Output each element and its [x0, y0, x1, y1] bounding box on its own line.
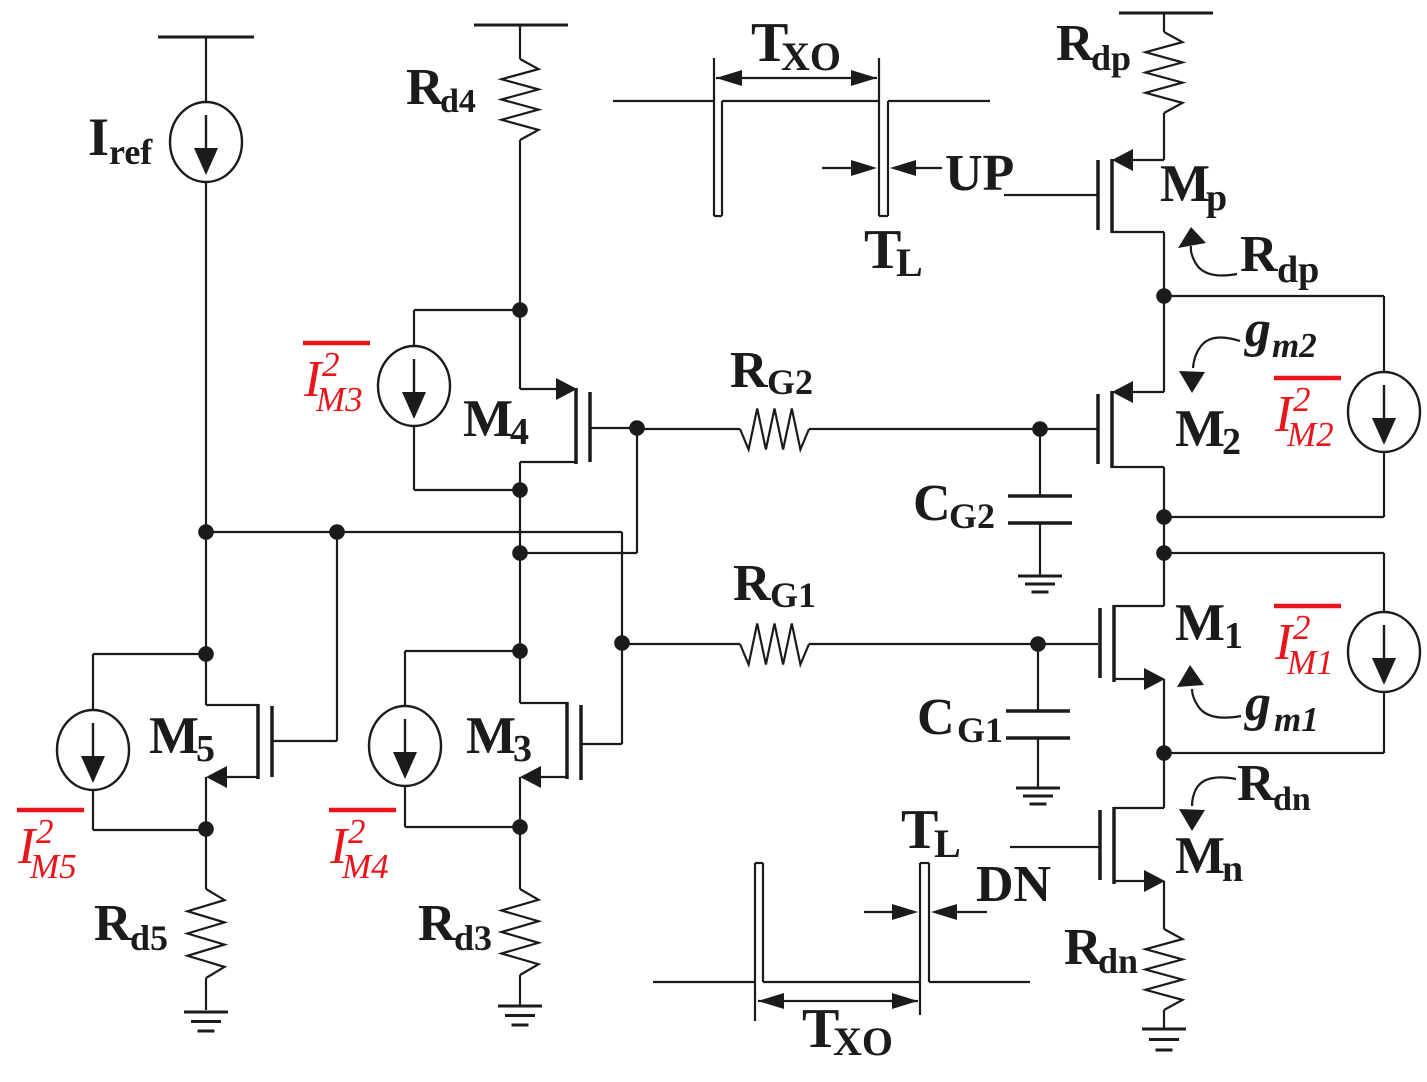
label UP [945, 145, 1014, 202]
wire Iref drain column [205, 182, 207, 705]
power rail (VDD) for Iref [158, 37, 254, 103]
resistor Rdp [1146, 32, 1183, 113]
wire node N to IM2 source top [1164, 296, 1384, 372]
dimension TXO (bottom) [758, 993, 918, 1009]
transistor M4 (PMOS-style, gate on right, arrow on drain lead) [520, 310, 637, 490]
wire RG2 left segment [637, 428, 740, 430]
svg-text:G1: G1 [770, 575, 816, 615]
wire M4 source down [519, 490, 521, 703]
svg-text:g: g [1244, 675, 1271, 732]
svg-text:dp: dp [1091, 38, 1131, 78]
svg-text:2: 2 [1293, 608, 1311, 647]
label M2 [1175, 400, 1241, 463]
svg-text:L: L [896, 240, 923, 285]
ground (CG1) [1016, 788, 1060, 804]
node H junction dot (M4 gate / RG2) [629, 420, 645, 436]
current source Iref [170, 102, 242, 182]
svg-text:XO: XO [833, 1019, 893, 1064]
svg-text:m1: m1 [1274, 700, 1319, 739]
svg-text:R: R [94, 895, 133, 952]
label RG1 [733, 555, 816, 615]
wire M3 gate branch vertical [621, 532, 623, 744]
transistor M1 (gate on left) [1100, 605, 1165, 753]
label M4 [463, 390, 529, 453]
svg-text:5: 5 [196, 728, 215, 770]
wire RG1 right segment [809, 643, 1098, 645]
svg-text:C: C [917, 689, 955, 746]
wire M2 drain up [1163, 296, 1165, 392]
wire RG1 left segment [622, 643, 740, 645]
wire DN gate lead [1010, 846, 1100, 848]
svg-text:2: 2 [36, 812, 54, 851]
label Iref [88, 107, 153, 172]
wire M5 gate branch vertical [336, 532, 338, 741]
node C junction dot (M5 source) [198, 821, 214, 837]
label Rd5 [94, 895, 168, 958]
wire UP gate lead [1004, 194, 1098, 196]
UP waveform pulse 1 [714, 58, 722, 216]
node N junction dot (Mp drain / M2 drain) [1156, 288, 1172, 304]
svg-text:C: C [913, 475, 951, 532]
transistor Mp (PMOS, gate on left) [1098, 149, 1164, 233]
svg-text:g: g [1244, 301, 1271, 358]
transistor M2 (gate on left) [1098, 381, 1164, 468]
power rail (VDD) for Rdp [1119, 13, 1213, 32]
ground (Rd3) [498, 1006, 542, 1025]
node F junction dot (M4 source) [512, 482, 528, 498]
label IM5 noise (red) [17, 810, 84, 886]
wire Rdp to Mp drain [1163, 113, 1165, 160]
svg-text:M1: M1 [1286, 643, 1334, 682]
label IM2 noise (red) [1274, 378, 1341, 454]
wire IM2 bottom to node O [1164, 452, 1384, 517]
node Q junction dot (M1 source / Mn drain) [1156, 745, 1172, 761]
wire Rdn to ground [1163, 1010, 1165, 1028]
label Rdp (pointer) [1240, 226, 1319, 291]
transistor M3 (diode-connected NMOS, gate on right) [520, 702, 622, 827]
svg-text:R: R [1056, 15, 1095, 72]
svg-text:p: p [1206, 177, 1227, 219]
resistor Rd4 [502, 59, 539, 140]
pointer arrow Rdn [1179, 777, 1236, 831]
svg-text:M: M [149, 707, 199, 765]
label IM1 noise (red) [1274, 606, 1341, 682]
svg-text:d3: d3 [454, 918, 492, 958]
svg-text:n: n [1222, 848, 1243, 890]
node I junction dot (M3 drain) [512, 643, 528, 659]
svg-text:R: R [1237, 755, 1276, 812]
label Rdp (resistor) [1056, 15, 1131, 78]
wire RG2 right segment [809, 428, 1098, 430]
capacitor CG1 [1006, 644, 1070, 787]
svg-text:2: 2 [1293, 380, 1311, 419]
svg-text:R: R [418, 895, 457, 952]
svg-text:dn: dn [1273, 781, 1311, 818]
wire gate rail horizontal (Iref mirror gates) [206, 531, 622, 533]
label gm1 [1244, 675, 1319, 739]
dimension DN pulse width arrows [864, 904, 987, 920]
label TL (top) [864, 219, 923, 285]
svg-text:M: M [1160, 155, 1210, 213]
label Rdn (pointer) [1237, 755, 1311, 818]
svg-text:dp: dp [1277, 249, 1319, 291]
ground (CG2) [1018, 576, 1062, 592]
node K junction dot (RG1 tap) [614, 635, 630, 651]
node M junction dot (CG1 tap) [1030, 636, 1046, 652]
resistor Rdn [1146, 929, 1183, 1010]
svg-text:M: M [1175, 594, 1225, 652]
pointer arrow Rdp [1178, 227, 1237, 276]
svg-text:R: R [730, 342, 769, 399]
resistor Rd5 [188, 889, 225, 978]
wire M5 source to Rd5 [205, 829, 207, 889]
node A junction dot (Iref/gate rail) [198, 524, 214, 540]
label TXO (bottom) [802, 998, 893, 1064]
wire IM1 bottom to node Q [1164, 692, 1384, 753]
svg-text:M3: M3 [315, 380, 363, 419]
label DN [976, 856, 1051, 913]
svg-text:M: M [466, 707, 516, 765]
svg-text:2: 2 [1222, 421, 1241, 463]
node B junction dot (M5 drain) [198, 646, 214, 662]
pointer arrow gm1 [1177, 665, 1241, 718]
pointer arrow gm2 [1179, 337, 1240, 393]
noise source IM5 loop wires [93, 654, 206, 830]
label Mp [1160, 155, 1227, 219]
svg-text:I: I [88, 107, 109, 167]
ground (Rd5) [184, 1012, 228, 1031]
node L junction dot (CG2 tap) [1032, 421, 1048, 437]
svg-text:M5: M5 [29, 847, 77, 886]
svg-text:ref: ref [109, 132, 153, 172]
UP waveform baseline [613, 100, 990, 102]
transistor M5 (diode-connected NMOS, gate on right) [206, 704, 337, 829]
svg-text:4: 4 [510, 411, 529, 453]
DN waveform baseline [653, 981, 1030, 983]
node P junction dot (M1 drain) [1156, 545, 1172, 561]
resistor Rd3 [502, 889, 539, 975]
capacitor CG2 [1008, 429, 1072, 575]
resistor RG2 [740, 409, 809, 450]
label TL (bottom) [901, 799, 961, 866]
svg-text:R: R [733, 555, 772, 612]
svg-text:d4: d4 [440, 83, 476, 120]
noise source IM4 loop wires [405, 651, 520, 827]
wire Mp source down to node N [1163, 232, 1165, 296]
svg-text:XO: XO [781, 34, 841, 79]
wire M3 source to Rd3 [519, 827, 521, 889]
node J junction dot (M3 source) [512, 819, 528, 835]
svg-text:M: M [1175, 400, 1225, 458]
noise source IM3 loop wires [414, 310, 520, 490]
dimension TXO (top) [716, 70, 877, 86]
label RG2 [730, 342, 813, 402]
node G junction dot (M4 gate feedback) [512, 545, 528, 561]
label M3 [466, 707, 532, 770]
label CG2 [913, 475, 995, 536]
wire Rd4 to M4 drain node [519, 140, 521, 310]
resistor RG1 [740, 624, 809, 665]
svg-text:G1: G1 [957, 710, 1003, 750]
transistor Mn (gate on left) [1100, 753, 1165, 892]
label M1 [1175, 594, 1243, 657]
svg-text:M: M [1175, 827, 1225, 885]
node E junction dot (M4 drain) [512, 302, 528, 318]
label Rdn (resistor) [1064, 919, 1138, 981]
power rail (VDD) for Rd4 [474, 25, 568, 59]
svg-text:m2: m2 [1272, 326, 1317, 365]
svg-text:d5: d5 [130, 918, 168, 958]
label CG1 [917, 689, 1003, 750]
svg-text:T: T [901, 799, 938, 861]
wire Rd3 to ground [519, 975, 521, 1005]
label Rd4 [406, 59, 476, 120]
svg-text:M2: M2 [1286, 415, 1334, 454]
label IM4 noise (red) [329, 810, 396, 886]
svg-text:dn: dn [1098, 941, 1138, 981]
noise current source IM1 [1348, 612, 1420, 692]
svg-text:M4: M4 [341, 847, 389, 886]
dimension UP pulse width arrows [822, 160, 942, 176]
wire M4 gate feedback horizontal [520, 552, 637, 554]
svg-text:1: 1 [1224, 615, 1243, 657]
svg-text:G2: G2 [767, 362, 813, 402]
node O junction dot (M2 source) [1156, 509, 1172, 525]
wire node P to IM1 top [1164, 553, 1384, 612]
svg-text:3: 3 [513, 728, 532, 770]
UP waveform pulse 2 [879, 58, 888, 216]
svg-text:M: M [463, 390, 513, 448]
noise current source IM3 [378, 346, 450, 426]
svg-text:L: L [934, 821, 961, 866]
noise current source IM4 [369, 706, 441, 786]
label M5 [149, 707, 215, 770]
DN waveform pulse 1 [755, 863, 763, 1021]
svg-text:2: 2 [322, 345, 340, 384]
noise current source IM2 [1348, 372, 1420, 452]
wire M4 gate feedback vertical [636, 428, 638, 553]
svg-text:G2: G2 [949, 496, 995, 536]
label TXO (top) [751, 12, 841, 79]
label IM3 noise (red) [303, 343, 370, 419]
svg-text:2: 2 [348, 812, 366, 851]
label gm2 [1244, 301, 1317, 365]
ground (Rdn) [1142, 1029, 1186, 1050]
DN waveform pulse 2 [920, 863, 929, 1015]
svg-text:UP: UP [945, 145, 1014, 202]
svg-text:R: R [1240, 226, 1279, 283]
label Mn [1175, 827, 1243, 890]
label Rd3 [418, 895, 492, 958]
noise current source IM5 [57, 710, 129, 790]
node D junction dot (M5 gate branch) [329, 524, 345, 540]
wire M2 source down [1163, 467, 1165, 606]
svg-text:DN: DN [976, 856, 1051, 913]
wire Rd5 to ground [205, 978, 207, 1010]
wire Mn source to Rdn [1163, 881, 1165, 929]
